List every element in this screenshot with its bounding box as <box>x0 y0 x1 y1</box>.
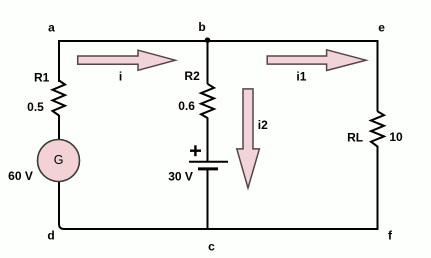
svg-text:0.6: 0.6 <box>178 99 195 113</box>
svg-text:30 V: 30 V <box>168 170 193 184</box>
svg-text:0.5: 0.5 <box>27 100 44 114</box>
svg-text:10: 10 <box>389 130 403 144</box>
svg-text:c: c <box>208 240 215 254</box>
svg-text:a: a <box>48 21 55 35</box>
svg-text:d: d <box>47 229 54 243</box>
svg-text:R2: R2 <box>184 69 200 83</box>
svg-text:G: G <box>54 153 64 167</box>
svg-text:i2: i2 <box>258 118 268 132</box>
svg-text:f: f <box>388 229 393 243</box>
svg-text:e: e <box>378 20 385 34</box>
svg-text:60 V: 60 V <box>8 169 33 183</box>
svg-text:i: i <box>119 70 122 84</box>
svg-text:i1: i1 <box>296 70 306 84</box>
svg-text:RL: RL <box>347 131 363 145</box>
svg-text:b: b <box>198 20 205 34</box>
svg-text:R1: R1 <box>34 70 50 84</box>
